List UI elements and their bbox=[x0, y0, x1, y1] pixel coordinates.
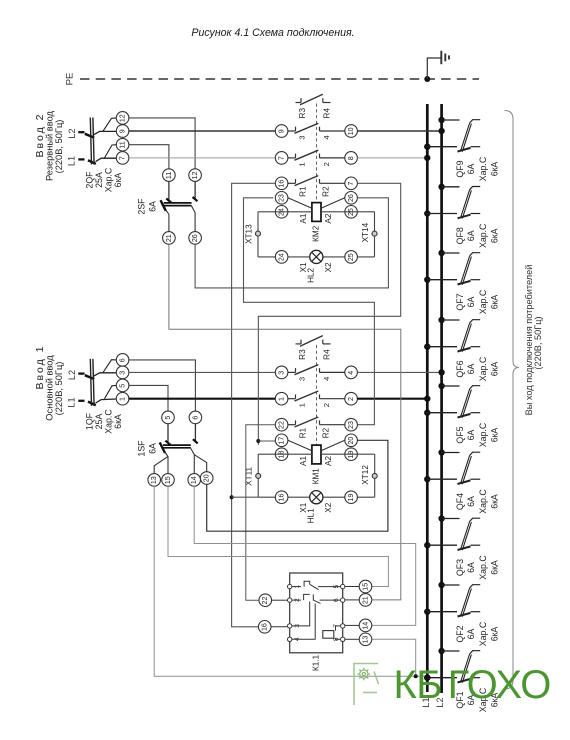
label 2SF value bbox=[136, 198, 157, 215]
terminal 9 left row34 KM2 bbox=[275, 125, 288, 138]
svg-text:24: 24 bbox=[277, 253, 285, 261]
wire net 26 2SF to KM2 bbox=[195, 198, 388, 288]
relay K1 box bbox=[290, 573, 343, 653]
svg-text:7: 7 bbox=[347, 182, 355, 186]
svg-text:Хар.С: Хар.С bbox=[478, 621, 488, 646]
svg-text:X2: X2 bbox=[324, 262, 333, 272]
wire net 15 1SF to K1 bbox=[168, 486, 388, 586]
terminal XT12 bbox=[372, 473, 377, 478]
svg-text:13: 13 bbox=[361, 636, 369, 644]
svg-text:19: 19 bbox=[347, 494, 355, 502]
terminal 22 left rowR KM1 bbox=[275, 418, 288, 431]
coil КМ1 bbox=[288, 440, 345, 464]
svg-text:R1: R1 bbox=[298, 186, 307, 197]
svg-text:К1.1: К1.1 bbox=[311, 654, 320, 671]
terminal 23 left pair KM2 bbox=[275, 192, 288, 205]
label QF9 value bbox=[455, 156, 499, 181]
breaker 2QF bbox=[78, 118, 116, 165]
terminal 15 at K1 bbox=[359, 580, 372, 593]
terminal 7 left row12 KM2 bbox=[275, 152, 288, 165]
terminal 2 right row12 KM1 bbox=[345, 392, 358, 405]
svg-text:6А: 6А bbox=[147, 443, 157, 454]
svg-text:6: 6 bbox=[191, 416, 199, 420]
wire net 17 tap bbox=[258, 440, 275, 442]
wire net 21 2SF to K1 bbox=[169, 244, 401, 600]
svg-text:Рисунок 4.1 Схема подключения.: Рисунок 4.1 Схема подключения. bbox=[191, 27, 354, 39]
terminal 4 right row34 KM1 bbox=[345, 366, 358, 379]
svg-text:6кА: 6кА bbox=[113, 414, 123, 429]
brace consumers output bbox=[505, 111, 520, 690]
contact 1-5 K1 bbox=[292, 581, 341, 589]
svg-text:16: 16 bbox=[277, 180, 285, 188]
label QF2 value bbox=[455, 621, 499, 646]
wire net 14 1SF to K1 bbox=[194, 486, 416, 625]
svg-text:15: 15 bbox=[361, 583, 369, 591]
svg-text:XT13: XT13 bbox=[244, 224, 253, 244]
svg-text:X2: X2 bbox=[324, 502, 333, 512]
svg-text:1QF: 1QF bbox=[84, 412, 94, 430]
dashed link of КМ1 bbox=[316, 345, 318, 446]
breaker 2SF bbox=[161, 181, 198, 231]
breaker QF3 bbox=[424, 515, 480, 550]
svg-text:PE: PE bbox=[65, 73, 76, 86]
terminal 26 right pair KM2 bbox=[345, 192, 358, 205]
wire 14 stub K1 bbox=[345, 624, 359, 626]
terminal 7 right rowR KM2 bbox=[345, 177, 358, 190]
svg-text:2QF: 2QF bbox=[84, 171, 94, 189]
svg-text:A2: A2 bbox=[324, 456, 333, 466]
svg-text:25: 25 bbox=[347, 253, 355, 261]
coil КМ2 bbox=[288, 198, 345, 222]
svg-text:Хар.С: Хар.С bbox=[478, 223, 488, 248]
svg-text:23: 23 bbox=[347, 421, 355, 429]
svg-text:3: 3 bbox=[298, 377, 307, 381]
svg-text:R4: R4 bbox=[322, 349, 331, 360]
svg-text:QF5: QF5 bbox=[455, 426, 465, 443]
svg-text:11: 11 bbox=[165, 172, 173, 179]
label Ввод 1 title bbox=[34, 345, 64, 421]
svg-text:6кА: 6кА bbox=[490, 494, 500, 509]
terminal 26 at 2SF bbox=[189, 232, 202, 245]
terminal 17 left pair KM1 bbox=[275, 434, 288, 447]
svg-text:Основной ввод: Основной ввод bbox=[44, 355, 54, 421]
terminal 19 right pair2 KM1 bbox=[345, 448, 358, 461]
svg-text:XT12: XT12 bbox=[361, 465, 370, 485]
terminal 16 at K1 bbox=[258, 621, 271, 634]
svg-text:(220В, 50Гц): (220В, 50Гц) bbox=[533, 316, 543, 369]
pin 8 K1 bbox=[341, 637, 345, 641]
bus L1 vertical bbox=[426, 104, 429, 692]
svg-text:КМ1: КМ1 bbox=[312, 468, 321, 485]
terminal 5 at 1QF bbox=[116, 379, 129, 392]
terminal 3 at 1QF bbox=[116, 366, 129, 379]
svg-text:КМ2: КМ2 bbox=[312, 225, 321, 242]
breaker QF7 bbox=[424, 250, 480, 285]
svg-text:6А: 6А bbox=[466, 163, 476, 174]
breaker QF1 bbox=[424, 648, 480, 683]
label QF3 value bbox=[455, 555, 499, 580]
terminal 3 left row34 KM1 bbox=[275, 366, 288, 379]
wire net 16 vertical bbox=[232, 183, 276, 627]
svg-text:5: 5 bbox=[164, 416, 172, 420]
label QF1 value bbox=[455, 687, 499, 712]
svg-text:11: 11 bbox=[118, 141, 126, 148]
breaker QF2 bbox=[424, 582, 480, 617]
wire net 9 long bbox=[129, 130, 276, 132]
svg-text:7: 7 bbox=[277, 156, 285, 160]
terminal 22 at K1 bbox=[259, 594, 272, 607]
terminal 13 at K1 bbox=[359, 633, 372, 646]
label Ввод 2 title bbox=[34, 110, 64, 181]
wire 13 stub K1 bbox=[345, 638, 359, 640]
wire PE dashed line bbox=[80, 78, 479, 80]
svg-text:A1: A1 bbox=[299, 456, 308, 466]
svg-text:6кА: 6кА bbox=[490, 228, 500, 243]
terminal 9 at 2QF bbox=[116, 125, 129, 138]
wire test box KM2 bbox=[258, 212, 375, 257]
svg-text:1: 1 bbox=[118, 397, 126, 401]
svg-text:QF9: QF9 bbox=[455, 160, 465, 177]
svg-text:КБ ГОХО: КБ ГОХО bbox=[394, 663, 551, 707]
terminal XT13 bbox=[256, 231, 261, 236]
terminal 7 at 2QF bbox=[116, 152, 129, 165]
terminal 11 at 2SF bbox=[163, 169, 176, 182]
svg-text:6кА: 6кА bbox=[490, 295, 500, 310]
svg-text:25А: 25А bbox=[94, 172, 104, 188]
terminal XT14 bbox=[372, 231, 377, 236]
svg-text:16: 16 bbox=[261, 623, 269, 631]
pin 2 K1 bbox=[288, 598, 292, 602]
svg-text:Резервный ввод: Резервный ввод bbox=[44, 110, 54, 181]
svg-text:2: 2 bbox=[322, 403, 331, 407]
terminal 24b lamp left KM2 bbox=[275, 251, 288, 264]
svg-text:4: 4 bbox=[322, 377, 331, 381]
svg-text:7: 7 bbox=[118, 156, 126, 160]
pin 3 K1 bbox=[288, 624, 292, 628]
svg-text:21: 21 bbox=[361, 596, 369, 604]
terminal 24 left pair2 KM2 bbox=[275, 206, 288, 219]
contact R1 R2 KM1 bbox=[288, 417, 345, 427]
terminal 19 lamp right KM1 bbox=[345, 491, 358, 504]
wire 22 stub K1 bbox=[272, 599, 288, 601]
svg-text:6кА: 6кА bbox=[113, 173, 123, 188]
terminal 10 right row34 KM2 bbox=[345, 125, 358, 138]
svg-text:26: 26 bbox=[191, 234, 199, 242]
svg-text:QF8: QF8 bbox=[455, 227, 465, 244]
terminal 15 at 1SF bbox=[162, 474, 175, 487]
terminal 8 right row12 KM2 bbox=[345, 152, 358, 165]
svg-text:L2: L2 bbox=[67, 128, 77, 138]
svg-text:1: 1 bbox=[298, 403, 307, 407]
svg-text:14: 14 bbox=[361, 622, 369, 630]
contact R1 R2 KM2 bbox=[288, 176, 345, 186]
svg-text:12: 12 bbox=[191, 171, 199, 179]
svg-text:22: 22 bbox=[277, 421, 285, 429]
ground bbox=[427, 51, 449, 79]
svg-text:6кА: 6кА bbox=[490, 362, 500, 377]
label QF6 value bbox=[455, 356, 499, 381]
label 1QF value bbox=[84, 409, 123, 434]
terminal 21 at 2SF bbox=[163, 232, 176, 245]
watermark logo КБ ГОХО bbox=[354, 664, 379, 706]
label QF4 value bbox=[455, 489, 499, 514]
svg-text:3: 3 bbox=[277, 371, 285, 375]
coil K1 bbox=[323, 626, 341, 639]
breaker QF6 bbox=[424, 317, 480, 352]
svg-text:A2: A2 bbox=[324, 213, 333, 223]
pin 7 K1 bbox=[341, 624, 345, 628]
wire net 4 to bus L2 bbox=[357, 371, 441, 373]
link pin4 K1 bbox=[292, 604, 315, 640]
contact 2-6 K1 bbox=[292, 594, 341, 603]
svg-text:6кА: 6кА bbox=[490, 560, 500, 575]
svg-text:9: 9 bbox=[277, 129, 285, 133]
svg-text:QF4: QF4 bbox=[455, 493, 465, 510]
terminal 6 at 1SF bbox=[189, 411, 202, 424]
terminal XT11 bbox=[256, 473, 261, 478]
terminal 11 at 2QF bbox=[116, 138, 129, 151]
wire net 3 long bbox=[129, 371, 276, 373]
dashed link of КМ2 bbox=[316, 104, 318, 204]
pin 4 K1 bbox=[288, 637, 292, 641]
svg-text:15: 15 bbox=[164, 476, 172, 484]
svg-text:L1: L1 bbox=[67, 156, 77, 166]
label 2QF value bbox=[84, 167, 123, 192]
terminal 20 right pair KM1 bbox=[345, 434, 358, 447]
wire net 2 to bus L1 bbox=[357, 398, 427, 400]
svg-text:6А: 6А bbox=[466, 562, 476, 573]
svg-text:4: 4 bbox=[322, 135, 331, 139]
svg-text:14: 14 bbox=[190, 476, 198, 484]
svg-text:8: 8 bbox=[347, 156, 355, 160]
terminal 16 left rowR KM2 bbox=[275, 177, 288, 190]
label 1SF value bbox=[136, 440, 157, 457]
svg-text:Хар.С: Хар.С bbox=[478, 289, 488, 314]
wire net 16 lamp KM1 tap bbox=[232, 496, 259, 498]
wire net 1 long bbox=[129, 398, 276, 400]
svg-text:6кА: 6кА bbox=[490, 162, 500, 177]
junction net 13 bbox=[414, 674, 418, 678]
wire net 6 to 1SF bbox=[129, 360, 196, 411]
terminal 14 at K1 bbox=[359, 619, 372, 632]
svg-text:HL2: HL2 bbox=[306, 267, 315, 282]
svg-text:A1: A1 bbox=[299, 213, 308, 223]
wire net 20 1SF to KM1 bbox=[207, 440, 388, 531]
svg-text:3: 3 bbox=[298, 135, 307, 139]
terminal 25 lamp right KM2 bbox=[345, 251, 358, 264]
svg-text:R2: R2 bbox=[322, 186, 331, 197]
wire net 7 right vertical bbox=[258, 183, 400, 445]
svg-text:HL1: HL1 bbox=[306, 508, 315, 523]
breaker QF9 bbox=[424, 117, 480, 152]
svg-text:22: 22 bbox=[261, 597, 269, 605]
terminal 21 at K1 bbox=[359, 594, 372, 607]
svg-text:R3: R3 bbox=[298, 349, 307, 360]
svg-text:6: 6 bbox=[118, 358, 126, 362]
svg-text:6кА: 6кА bbox=[490, 428, 500, 443]
svg-text:6А: 6А bbox=[466, 230, 476, 241]
breaker QF4 bbox=[424, 449, 480, 484]
svg-text:Хар.С: Хар.С bbox=[478, 422, 488, 447]
wire net 8 to bus L1 bbox=[357, 157, 427, 159]
svg-text:6А: 6А bbox=[466, 363, 476, 374]
svg-text:16: 16 bbox=[277, 494, 285, 502]
svg-text:20: 20 bbox=[203, 474, 211, 482]
contact R3 R4 of КМ2 bbox=[296, 94, 331, 105]
terminal 20 at 1SF bbox=[200, 472, 213, 485]
wire net 11 to 2SF bbox=[129, 145, 169, 169]
svg-text:6А: 6А bbox=[466, 296, 476, 307]
wire net 7 long bbox=[129, 157, 276, 159]
wire net 23 KM2 to KM1 bbox=[244, 198, 375, 425]
svg-text:QF3: QF3 bbox=[455, 559, 465, 576]
svg-text:(220В, 50Гц): (220В, 50Гц) bbox=[54, 362, 64, 416]
svg-text:13: 13 bbox=[150, 476, 158, 484]
pin 6 K1 bbox=[341, 598, 345, 602]
svg-text:12: 12 bbox=[118, 114, 126, 122]
svg-text:(220В, 50Гц): (220В, 50Гц) bbox=[54, 120, 64, 174]
svg-text:6А: 6А bbox=[466, 628, 476, 639]
svg-text:20: 20 bbox=[347, 437, 355, 445]
breaker 1QF bbox=[78, 359, 116, 406]
svg-text:21: 21 bbox=[165, 234, 173, 242]
terminal 1 left row12 KM1 bbox=[275, 392, 288, 405]
svg-text:2: 2 bbox=[322, 162, 331, 166]
label QF5 value bbox=[455, 422, 499, 447]
svg-text:1SF: 1SF bbox=[136, 440, 146, 457]
wire test box KM1 bbox=[258, 454, 375, 497]
svg-text:Хар.С: Хар.С bbox=[478, 489, 488, 514]
svg-text:R2: R2 bbox=[322, 427, 331, 438]
contact row 3-4 KM2 bbox=[288, 123, 345, 133]
svg-text:R4: R4 bbox=[322, 108, 331, 119]
link pin3 K1 bbox=[292, 602, 310, 626]
breaker 1SF bbox=[154, 424, 207, 474]
svg-text:L1: L1 bbox=[67, 397, 77, 407]
svg-text:1: 1 bbox=[298, 162, 307, 166]
svg-text:XT14: XT14 bbox=[361, 222, 370, 242]
wire net 12 to 2SF bbox=[129, 118, 195, 169]
svg-text:L2: L2 bbox=[67, 370, 77, 380]
svg-text:10: 10 bbox=[347, 127, 355, 135]
wire net 13 from K1 bbox=[372, 639, 416, 676]
breaker QF5 bbox=[424, 383, 480, 418]
svg-text:3: 3 bbox=[118, 371, 126, 375]
svg-text:QF2: QF2 bbox=[455, 625, 465, 642]
svg-text:26: 26 bbox=[347, 194, 355, 202]
wire net 5 to 1SF bbox=[129, 385, 168, 411]
terminal 14 at 1SF bbox=[188, 474, 201, 487]
junction PE-ground bbox=[424, 76, 430, 82]
breaker QF8 bbox=[424, 184, 480, 219]
svg-text:R3: R3 bbox=[298, 108, 307, 119]
wire 21 stub K1 bbox=[345, 599, 359, 601]
svg-text:6А: 6А bbox=[147, 201, 157, 212]
terminal 18 left pair2 KM1 bbox=[275, 448, 288, 461]
lamp HL1 bbox=[310, 491, 323, 504]
svg-text:6кА: 6кА bbox=[490, 627, 500, 642]
terminal 25 right pair2 KM2 bbox=[345, 206, 358, 219]
svg-text:5: 5 bbox=[118, 384, 126, 388]
contact row 3-4 KM1 bbox=[288, 365, 345, 375]
wire 15 stub K1 bbox=[345, 586, 359, 588]
contact row 1-2 KM1 bbox=[288, 391, 345, 401]
terminal 12 at 2QF bbox=[116, 112, 129, 125]
junction net16 lamp KM1 bbox=[230, 495, 234, 499]
svg-text:Хар.С: Хар.С bbox=[478, 555, 488, 580]
pin 5 K1 bbox=[341, 584, 345, 588]
label QF7 value bbox=[455, 289, 499, 314]
contact R3 R4 of КМ1 bbox=[296, 336, 331, 347]
wire net 10 to bus L2 bbox=[357, 130, 441, 132]
svg-text:25А: 25А bbox=[94, 414, 104, 430]
svg-text:9: 9 bbox=[118, 129, 126, 133]
contact row 1-2 KM2 bbox=[288, 150, 345, 160]
junction net 17 bbox=[256, 439, 260, 443]
terminal 16b lamp left KM1 bbox=[275, 491, 288, 504]
terminal 5 at 1SF bbox=[162, 411, 175, 424]
pin 1 K1 bbox=[288, 584, 292, 588]
svg-text:Хар.С: Хар.С bbox=[478, 156, 488, 181]
lamp HL2 bbox=[310, 250, 323, 263]
svg-text:6А: 6А bbox=[466, 429, 476, 440]
svg-text:23: 23 bbox=[277, 194, 285, 202]
svg-text:R1: R1 bbox=[298, 427, 307, 438]
terminal 1 at 1QF bbox=[116, 392, 129, 405]
label consumers output bbox=[524, 265, 543, 416]
wire net 13 bottom bbox=[154, 486, 427, 676]
svg-text:6А: 6А bbox=[466, 496, 476, 507]
svg-text:17: 17 bbox=[277, 437, 285, 445]
bus L2 vertical bbox=[440, 104, 443, 693]
terminal 6 at 1QF bbox=[116, 354, 129, 367]
wire 16 stub K1 bbox=[271, 626, 288, 628]
svg-text:4: 4 bbox=[347, 371, 355, 375]
label QF8 value bbox=[455, 223, 499, 248]
svg-text:2SF: 2SF bbox=[136, 198, 146, 215]
wire net 22 KM1 to K1 bbox=[246, 425, 275, 601]
svg-text:Хар.С: Хар.С bbox=[478, 356, 488, 381]
svg-text:QF7: QF7 bbox=[455, 293, 465, 310]
terminal 23 right rowR KM1 bbox=[345, 418, 358, 431]
terminal 13 at 1SF bbox=[148, 474, 161, 487]
svg-text:2: 2 bbox=[347, 397, 355, 401]
svg-text:1: 1 bbox=[277, 397, 285, 401]
svg-text:QF6: QF6 bbox=[455, 360, 465, 377]
terminal 12 at 2SF bbox=[189, 169, 202, 182]
